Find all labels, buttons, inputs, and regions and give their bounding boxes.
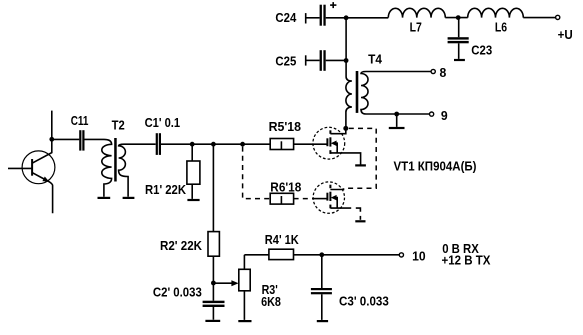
svg-text:C11: C11	[71, 113, 89, 128]
svg-text:C25: C25	[275, 54, 296, 69]
svg-text:VT1 КП904А(Б): VT1 КП904А(Б)	[394, 159, 477, 174]
svg-text:R6'18: R6'18	[270, 180, 301, 195]
svg-text:9: 9	[441, 108, 448, 123]
svg-text:8: 8	[440, 65, 447, 80]
svg-text:R5'18: R5'18	[269, 119, 301, 134]
svg-text:R4' 1K: R4' 1K	[265, 232, 300, 247]
svg-text:C24: C24	[275, 10, 297, 25]
svg-text:C3' 0.033: C3' 0.033	[339, 293, 389, 308]
svg-text:10: 10	[412, 248, 426, 263]
svg-text:+U: +U	[558, 27, 573, 42]
svg-text:L7: L7	[410, 20, 422, 35]
svg-text:T2: T2	[112, 118, 125, 133]
svg-text:L6: L6	[495, 20, 507, 35]
svg-text:T4: T4	[368, 51, 382, 66]
svg-text:C1' 0.1: C1' 0.1	[145, 115, 181, 130]
svg-text:R2' 22K: R2' 22K	[160, 238, 203, 253]
svg-text:C23: C23	[471, 43, 492, 58]
svg-text:6K8: 6K8	[261, 294, 281, 309]
svg-text:R1' 22K: R1' 22K	[145, 182, 187, 197]
svg-text:C2' 0.033: C2' 0.033	[153, 284, 202, 299]
svg-text:+12 В TX: +12 В TX	[442, 252, 491, 267]
